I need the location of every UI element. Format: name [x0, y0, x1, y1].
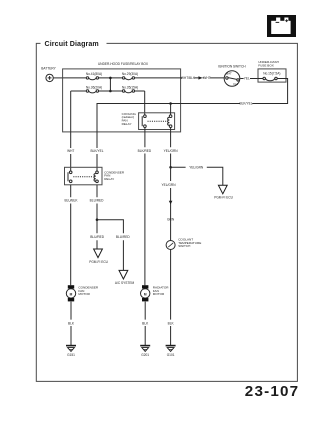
svg-text:No.29(30A): No.29(30A)	[122, 72, 138, 76]
svg-text:G151: G151	[67, 353, 75, 357]
svg-text:IG1: IG1	[233, 82, 238, 86]
svg-text:BLU/BLK: BLU/BLK	[64, 199, 78, 203]
svg-text:BLK/YEL: BLK/YEL	[91, 149, 104, 153]
fuse No.29 (30A)	[122, 72, 138, 79]
junction BLU/RED split	[96, 218, 99, 221]
arrow down on GRN wire	[169, 201, 173, 205]
arrow right on WHT/BLK wire	[198, 76, 202, 79]
wire YEL/GRN from cooling relay coil	[170, 128, 172, 168]
connector triangle PGM-FI ECU (right)	[214, 185, 233, 199]
section tab icon (battery) top right	[267, 15, 296, 37]
ground G201	[140, 346, 150, 357]
svg-text:PGM-FI ECU: PGM-FI ECU	[214, 195, 233, 199]
svg-text:WHT: WHT	[203, 76, 210, 80]
cooling fan relay	[122, 112, 175, 130]
svg-text:G201: G201	[141, 353, 149, 357]
svg-text:SWITCH: SWITCH	[178, 244, 190, 248]
wire dot to cooling relay coil	[170, 104, 172, 115]
fuse No.36 (20A)	[86, 85, 102, 93]
wire radiator motor to ground	[144, 302, 146, 346]
svg-text:G101: G101	[167, 353, 175, 357]
svg-text:M: M	[70, 293, 73, 297]
svg-text:FUSE BOX: FUSE BOX	[258, 63, 274, 67]
page frame	[36, 43, 297, 381]
fuse No.35 (15A)	[122, 85, 138, 92]
connector triangle PGM-FI ECU (left)	[89, 249, 108, 264]
svg-text:BLK: BLK	[168, 321, 175, 325]
wire under-dash fuse down to BLK/YEL	[97, 79, 288, 149]
condenser fan motor	[66, 285, 99, 301]
wire YEL to under-dash fuse box	[240, 78, 258, 80]
radiator fan motor	[141, 285, 170, 301]
wire row2	[71, 90, 145, 92]
wire WHT/BLK to ignition switch	[182, 77, 225, 79]
ground G151	[66, 346, 76, 357]
svg-text:BLK: BLK	[68, 321, 75, 325]
connector triangle A/C system	[115, 270, 135, 285]
svg-text:WHT: WHT	[67, 149, 74, 153]
wire WHT to condenser relay	[70, 154, 72, 171]
ground G101	[166, 346, 176, 357]
svg-text:MOTOR: MOTOR	[153, 292, 165, 296]
svg-text:YEL/GRN: YEL/GRN	[189, 166, 204, 170]
svg-text:A/C SYSTEM: A/C SYSTEM	[115, 281, 135, 285]
fuse No.15 (7.5A)	[258, 77, 286, 80]
wire branch to A/C system	[97, 220, 123, 271]
svg-text:YEL: YEL	[244, 77, 250, 81]
svg-text:BLU/RED: BLU/RED	[90, 199, 105, 203]
svg-text:BATTERY: BATTERY	[41, 66, 56, 70]
svg-text:23-107: 23-107	[245, 383, 299, 400]
svg-text:UNDER-HOOD FUSE/RELAY BOX: UNDER-HOOD FUSE/RELAY BOX	[98, 62, 149, 66]
junction dot coil feed	[169, 102, 172, 105]
svg-text:BLK/RED: BLK/RED	[138, 149, 152, 153]
svg-text:MOTOR: MOTOR	[78, 292, 90, 296]
wire YEL/GRN down	[170, 167, 172, 240]
wire branch to PGM-FI ECU (right)	[171, 167, 223, 185]
wire fuse35 to cooling fan relay	[144, 91, 146, 115]
svg-text:PGM-FI ECU: PGM-FI ECU	[89, 260, 108, 264]
svg-text:No.35(15A): No.35(15A)	[122, 85, 138, 89]
condenser fan relay	[65, 167, 125, 185]
under-hood fuse/relay box	[63, 62, 181, 132]
svg-text:WHT/BLK: WHT/BLK	[181, 76, 196, 80]
coolant temperature switch	[166, 238, 201, 250]
wire BLU/RED from relay coil	[96, 185, 98, 220]
wire temp switch to ground	[170, 250, 172, 346]
svg-text:No.36(20A): No.36(20A)	[86, 85, 102, 89]
ignition switch	[218, 64, 246, 86]
svg-text:BLK: BLK	[142, 321, 149, 325]
battery	[41, 66, 56, 81]
wire BLK/RED relay to radiator fan motor	[144, 128, 146, 286]
wire BLK/YEL to condenser relay	[96, 154, 98, 171]
svg-text:BLU/RED: BLU/RED	[90, 235, 105, 239]
svg-text:RELAY: RELAY	[104, 177, 114, 181]
wire BLU/BLK relay to condenser fan motor	[70, 185, 72, 285]
fuse No.41 (80A)	[86, 72, 102, 80]
svg-text:Circuit Diagram: Circuit Diagram	[45, 40, 99, 48]
svg-text:BLU/RED: BLU/RED	[116, 235, 131, 239]
svg-text:No.41(80A): No.41(80A)	[86, 72, 102, 76]
wire battery to fuse box	[53, 77, 63, 79]
svg-text:BAT: BAT	[226, 72, 232, 76]
svg-text:YEL/GRN: YEL/GRN	[162, 183, 177, 187]
svg-text:BLK/YEL: BLK/YEL	[240, 102, 253, 106]
wire condenser motor to ground	[70, 302, 72, 346]
svg-text:No.15(7.5A): No.15(7.5A)	[263, 71, 280, 75]
svg-text:M: M	[144, 293, 147, 297]
under-dash fuse box	[258, 60, 286, 82]
wire WHT down from row2	[70, 91, 72, 148]
junction node row1/row2 connector	[109, 77, 112, 93]
svg-text:GRN: GRN	[167, 217, 175, 221]
svg-text:IGNITION SWITCH: IGNITION SWITCH	[218, 64, 246, 68]
svg-text:YEL/GRN: YEL/GRN	[164, 149, 179, 153]
svg-text:RELAY: RELAY	[122, 122, 132, 126]
wire down to PGM-FI ECU	[96, 220, 98, 249]
junction YEL/GRN branch	[169, 166, 172, 169]
wire row1 (battery feed)	[63, 77, 182, 79]
